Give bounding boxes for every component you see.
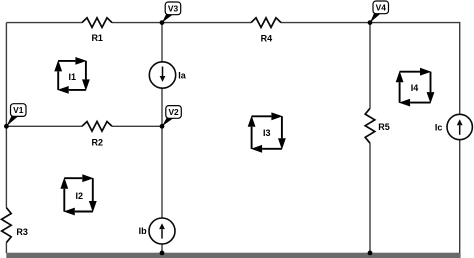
wire V2 to Ib top xyxy=(161,126,163,218)
svg-text:R3: R3 xyxy=(16,227,28,237)
wire top left to R1 xyxy=(6,22,82,24)
svg-text:Ic: Ic xyxy=(435,122,443,132)
node V2 xyxy=(160,106,182,129)
wire left vertical top to R3 xyxy=(5,23,7,208)
svg-text:Ia: Ia xyxy=(178,70,187,80)
node V3 xyxy=(160,2,181,25)
current source Ia xyxy=(149,62,187,88)
wire R1 to R4 xyxy=(112,22,251,24)
node V1 xyxy=(4,104,26,129)
svg-text:R2: R2 xyxy=(92,137,104,147)
wire V1 to R2 xyxy=(6,125,82,127)
current source Ic xyxy=(435,114,473,139)
mesh loop I1 xyxy=(54,57,90,94)
mesh loop I2 xyxy=(60,174,96,215)
wire V3 to Ia top xyxy=(161,23,163,62)
junction Ib-bus xyxy=(160,251,165,256)
wire V4 to R5 top xyxy=(369,23,371,109)
mesh loop I4 xyxy=(396,68,435,107)
svg-text:V3: V3 xyxy=(168,4,179,14)
svg-text:R1: R1 xyxy=(91,33,103,43)
svg-text:V1: V1 xyxy=(13,105,24,115)
resistor R4 xyxy=(251,18,281,44)
ground bus bar xyxy=(6,253,460,258)
wire Ia bottom to V2 xyxy=(161,88,163,126)
resistor R3 xyxy=(2,208,28,243)
resistor R1 xyxy=(82,18,112,43)
wire Ib bottom to bus xyxy=(161,244,163,253)
svg-text:I4: I4 xyxy=(411,83,419,93)
resistor R2 xyxy=(82,122,112,148)
svg-text:R5: R5 xyxy=(378,122,390,132)
svg-text:V2: V2 xyxy=(168,107,179,117)
junction R5-bus xyxy=(368,251,373,256)
svg-text:R4: R4 xyxy=(261,33,273,43)
node V4 xyxy=(368,1,389,25)
wire R4 to top right corner and down to Ic xyxy=(281,23,460,115)
svg-text:V4: V4 xyxy=(376,3,387,13)
svg-text:Ib: Ib xyxy=(139,226,148,236)
svg-text:I2: I2 xyxy=(75,191,83,201)
wire R2 to V2 xyxy=(112,125,162,127)
svg-text:I1: I1 xyxy=(69,72,77,82)
svg-text:I3: I3 xyxy=(263,128,271,138)
current source Ib xyxy=(139,218,175,244)
wire R3 bottom to bus xyxy=(5,243,7,253)
resistor R5 xyxy=(365,108,390,143)
wire R5 bottom to bus xyxy=(369,143,371,253)
mesh loop I3 xyxy=(248,112,286,152)
wire Ic bottom to bus xyxy=(459,140,461,253)
